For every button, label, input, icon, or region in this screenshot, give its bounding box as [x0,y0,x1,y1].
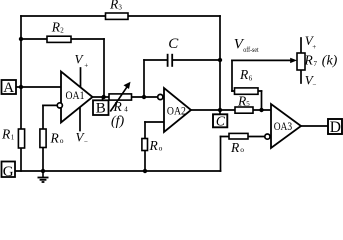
wire OA2 + input [145,121,164,123]
svg-text:+: + [312,43,316,51]
label V+ (R7 top) [305,33,317,51]
wire capacitor vertical [143,60,145,97]
svg-text:7: 7 [314,60,318,68]
op-amp OA1 inverting input circle [57,103,62,108]
wire Ro3 left vertical [220,137,222,172]
svg-text:o: o [240,145,244,154]
wire V offset to R7 wiper [232,59,291,61]
label V- (R7 bottom) [305,72,317,89]
wire OA3 - input [221,136,266,138]
wire OA1 output to R4 [93,96,110,98]
resistor R3 [106,13,129,19]
svg-text:OA3: OA3 [274,119,293,133]
svg-text:o: o [60,136,64,145]
junction ground [41,169,45,173]
label V- (OA1 supply) [76,130,89,146]
wire OA1 - input [43,104,57,106]
junction R2 left [19,37,23,41]
junction OA2 - input / capacitor [142,95,146,99]
resistor R5 [235,107,253,113]
wire node C stub [219,110,221,114]
wire OA2 output to OA3 + input via R5 [191,109,271,111]
resistor Ro3 (OA3 input) [229,133,248,139]
op-amp OA2 [164,88,191,132]
svg-text:R: R [50,131,60,146]
label R7 [304,53,318,68]
svg-text:OA2: OA2 [167,104,186,118]
junction R5-R6 / OA3 + input [259,108,263,112]
label R2 [51,20,65,35]
wire OA3 output [301,125,328,127]
op-amp OA3 inverting input circle [265,134,270,139]
junction Ro2 bottom [143,169,147,173]
wire top run (node A to OA2 output via R3) [21,15,220,17]
label V+ (OA1 supply) [75,51,89,69]
svg-text:−: − [313,81,317,89]
svg-text:B: B [96,101,106,117]
svg-text:o: o [159,143,163,152]
wire Ro1 vertical [42,106,44,172]
label R1 [1,127,15,142]
wire bottom ground rail [15,170,220,172]
svg-text:R: R [230,140,240,155]
resistor R6 [235,88,259,94]
label R3 [109,0,122,12]
op-amp OA1 [61,72,93,123]
svg-text:+: + [84,61,88,69]
svg-text:3: 3 [118,4,122,12]
svg-text:R: R [113,99,123,114]
wire R6 right vertical [261,91,263,110]
svg-text:1: 1 [11,134,15,142]
svg-text:(k): (k) [322,54,338,69]
label (f) [111,114,125,129]
wire R3 feedback vertical [219,16,221,110]
svg-text:4: 4 [124,106,128,114]
node C terminal box [213,113,227,128]
label (k) [322,54,338,69]
wire R4 to OA2 - input [132,96,159,98]
junction OA2 output / node C [218,108,222,112]
arrow of variable resistor R4 [110,82,130,112]
ground symbol [38,171,49,182]
label R6 [239,67,253,82]
wire R2 right vertical down to OA1 output [103,39,105,97]
svg-text:R: R [149,138,159,153]
arrowhead of R7 wiper [290,58,297,63]
svg-text:R: R [1,127,11,142]
svg-text:C: C [216,113,226,128]
wire capacitor left lead [144,59,167,61]
label R5 [237,94,250,109]
svg-text:−: − [84,137,88,145]
node D terminal box [328,119,342,136]
wire node A to OA1 + input [16,86,62,88]
svg-text:5: 5 [246,100,250,108]
node B stub [102,97,104,101]
wire Ro2 vertical [144,122,146,171]
resistor Ro2 (OA2 input) [142,139,148,151]
wire R2 branch horizontal [21,38,104,40]
wire OA1 V+ stub [80,68,82,88]
wire left vertical (node A net) [20,16,22,171]
node G terminal box [2,162,16,180]
svg-text:C: C [168,36,179,52]
wire R6 left vertical [231,60,233,91]
svg-text:R: R [51,20,61,35]
svg-text:2: 2 [60,27,64,35]
resistor Ro1 (OA1 input) [40,129,46,148]
wire OA1 V- stub [79,107,81,131]
svg-text:(f): (f) [111,114,125,129]
potentiometer R7 body [297,53,305,70]
label Ro3 [230,140,244,155]
svg-text:off-set: off-set [243,47,258,54]
resistor R1 [18,129,24,148]
junction capacitor to feedback vertical [218,58,222,62]
label C (capacitor) [168,36,179,52]
op-amp OA3 [271,104,301,148]
wire capacitor right lead [173,59,221,61]
op-amp OA2 inverting input circle [158,94,163,99]
label Ro1 [50,131,64,146]
svg-text:D: D [330,119,341,136]
svg-text:A: A [3,80,14,96]
svg-text:G: G [3,164,14,180]
wire R6 horizontal [232,90,262,92]
label Ro2 [149,138,163,153]
label V off-set [234,37,259,54]
node B terminal box [93,100,109,116]
svg-text:R: R [239,67,249,82]
junction OA1 output / node B [102,95,106,99]
resistor R2 [47,36,71,42]
node A terminal box [2,80,17,96]
capacitor C plates [168,54,173,67]
junction node A [19,85,23,89]
svg-text:R: R [304,53,314,68]
resistor R4 (variable) [109,94,132,100]
label R4 [113,99,129,114]
svg-text:6: 6 [249,74,253,82]
wire R7 vertical [300,38,302,83]
svg-text:OA1: OA1 [66,88,85,102]
